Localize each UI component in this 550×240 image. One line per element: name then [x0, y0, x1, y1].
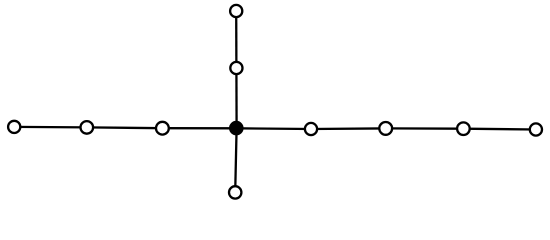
wire: edge v4-v5 [311, 127, 386, 130]
node v6 (open vertex) [457, 122, 470, 135]
node v1 (leftmost open vertex) [8, 121, 20, 133]
node t1 (top open vertex) [230, 5, 242, 17]
wire: edge v6-v7 [463, 128, 536, 131]
wire: edge t2-center [235, 68, 238, 128]
wire: edge t1-t2 (top arm) [235, 11, 237, 68]
node t2 (upper-middle open vertex) [230, 62, 242, 74]
node center (filled hub vertex) [229, 121, 244, 136]
wire: edge v1-v2 (left arm) [14, 126, 87, 129]
wire: edge v5-v6 [386, 127, 464, 130]
wire: edge center-b1 (bottom arm) [235, 128, 236, 192]
wire: edge v3-center [162, 127, 236, 129]
wire: edge center-v4 (right arm) [237, 127, 312, 130]
node b1 (bottom open vertex) [229, 186, 241, 198]
node v5 (open vertex) [379, 122, 392, 135]
node v4 (open vertex) [305, 123, 317, 135]
node v2 (open vertex) [81, 121, 94, 134]
node v3 (open vertex) [156, 122, 169, 135]
wire: edge v2-v3 [87, 126, 163, 129]
node v7 (rightmost open vertex) [530, 123, 542, 135]
